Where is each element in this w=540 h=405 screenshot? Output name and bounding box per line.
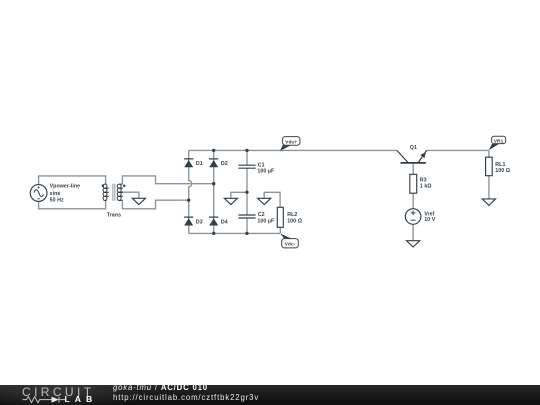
svg-text:100 µF: 100 µF — [257, 219, 275, 225]
svg-text:D4: D4 — [221, 219, 228, 225]
svg-text:100 Ω: 100 Ω — [495, 168, 511, 174]
svg-text:50 Hz: 50 Hz — [50, 198, 64, 204]
svg-text:RL2: RL2 — [287, 212, 297, 218]
svg-text:D1: D1 — [196, 161, 203, 167]
svg-text:VR1: VR1 — [494, 138, 504, 144]
svg-text:1 kΩ: 1 kΩ — [420, 183, 433, 189]
svg-text:Trans: Trans — [107, 213, 121, 219]
svg-text:Vdc+: Vdc+ — [285, 139, 297, 145]
svg-text:Q1: Q1 — [410, 145, 417, 151]
svg-text:10 V: 10 V — [424, 217, 436, 223]
svg-text:C1: C1 — [258, 162, 265, 168]
svg-text:D3: D3 — [196, 219, 203, 225]
svg-text:100 µF: 100 µF — [257, 169, 275, 175]
svg-text:D2: D2 — [221, 161, 228, 167]
svg-text:Vpower-line: Vpower-line — [50, 184, 81, 190]
svg-text:sine: sine — [50, 191, 61, 197]
svg-text:Vdc-: Vdc- — [285, 242, 296, 248]
svg-text:100 Ω: 100 Ω — [287, 218, 303, 224]
svg-text:C2: C2 — [258, 212, 265, 218]
